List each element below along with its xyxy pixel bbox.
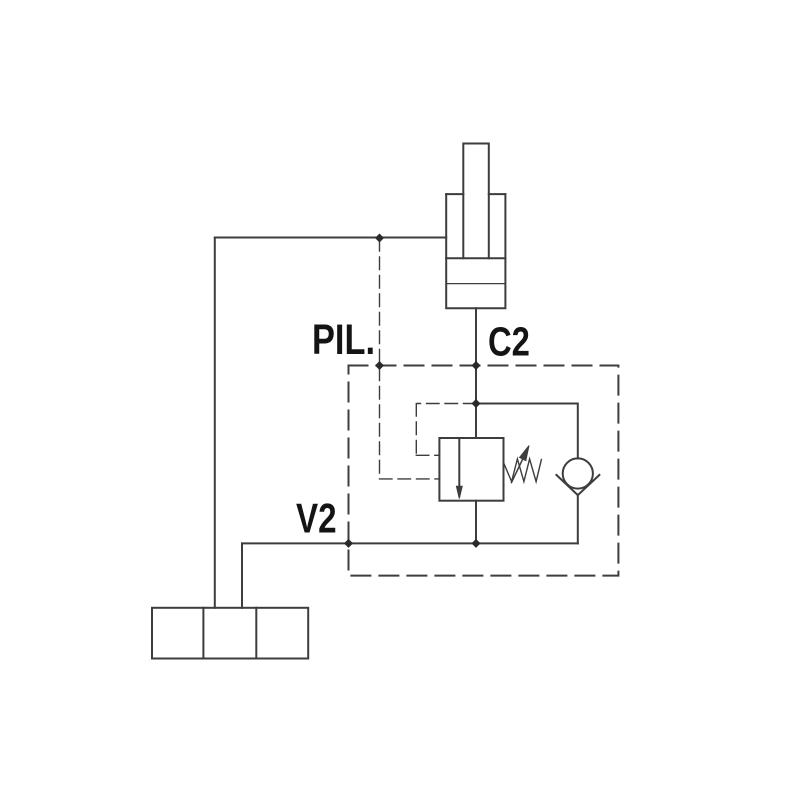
wire C2 vertical from cylinder to valve [475,308,477,438]
wire V2 horizontal line [242,542,578,544]
wire branch to check valve [476,404,578,459]
counterbalance valve V1 flow arrow [456,438,462,499]
pilot line PIL dashed horizontal to valve [380,478,440,480]
node junction dot C2 at boundary [472,361,481,370]
node junction dot V2 line [472,539,481,548]
wire left vertical riser [214,238,216,608]
label C2 [488,318,530,364]
svg-text:V2: V2 [296,495,337,541]
svg-text:C2: C2 [488,318,530,364]
counterbalance valve V1 envelope [439,438,503,501]
wire valve bottom port [475,501,477,544]
node junction dot C2 branch [472,399,481,408]
wire check valve to V2 line [577,495,579,543]
node junction dot V2 at boundary [344,539,353,548]
spring (adjustable) [504,459,542,482]
pilot line PIL dashed vertical [379,239,381,479]
check valve CV1 seat [556,475,599,495]
cylinder A1 piston rod [463,144,489,259]
wire V2 riser to block [241,543,243,607]
svg-text:PIL.: PIL. [312,317,375,364]
node junction dot pilot at boundary [375,361,384,370]
wire top horizontal from left riser to cylinder port [215,237,446,239]
cylinder A1 piston second line [446,283,505,285]
internal pilot dashed loop [416,404,476,456]
node junction dot top wire [375,234,384,243]
label PIL. [312,317,375,364]
label V2 [296,495,337,541]
adjustment arrow [512,446,530,483]
check valve CV1 circle [563,458,593,488]
valve enclosure dashed boundary [349,366,619,576]
cylinder A1 piston line [446,257,505,259]
cylinder A1 body [446,194,505,308]
port block B1 [152,608,308,659]
